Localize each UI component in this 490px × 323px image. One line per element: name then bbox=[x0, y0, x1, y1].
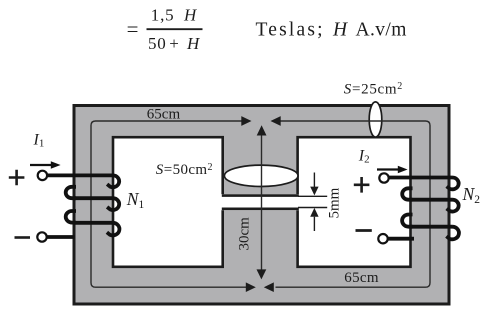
5mm dimension lower line and arrow (points up) bbox=[313, 217, 315, 231]
terminal - (N2) bbox=[378, 234, 387, 243]
svg-text:H: H bbox=[186, 34, 201, 53]
svg-text:65cm: 65cm bbox=[147, 106, 181, 122]
minus sign right bbox=[356, 229, 372, 232]
plus sign left bbox=[9, 170, 25, 186]
svg-text:50: 50 bbox=[148, 34, 167, 53]
winding N1 (left coil) bbox=[46, 175, 119, 237]
flux arrow bottom-left (points right) bbox=[246, 282, 256, 292]
hook 1 bbox=[107, 175, 119, 187]
svg-text:H: H bbox=[332, 20, 348, 41]
fraction bar bbox=[147, 28, 203, 30]
wire turn 3 bbox=[411, 225, 453, 229]
wire turn 3 bbox=[74, 221, 113, 225]
air gap bottom extension line bbox=[298, 207, 327, 209]
window left bbox=[113, 137, 223, 267]
svg-text:S=25cm2: S=25cm2 bbox=[344, 81, 403, 97]
hook 1 bbox=[447, 178, 459, 190]
flux arrow top-right (points left) bbox=[271, 116, 281, 126]
hook 2 bbox=[447, 200, 459, 212]
left loop C1 bbox=[402, 188, 412, 199]
cross-section ellipse S=50cm2 on center leg bbox=[224, 165, 298, 186]
svg-text:S=50cm2: S=50cm2 bbox=[156, 162, 213, 178]
cross-section ellipse S=25cm2 on top limb bbox=[369, 102, 382, 137]
svg-text:Teslas;: Teslas; bbox=[256, 20, 325, 41]
hook 3 bbox=[446, 227, 459, 240]
current arrow I2 bbox=[377, 168, 399, 170]
hook 3 bbox=[107, 223, 120, 236]
svg-text:+: + bbox=[169, 34, 179, 53]
left loop C2 bbox=[66, 211, 76, 223]
core outer body bbox=[74, 106, 449, 305]
left loop C1 bbox=[66, 187, 76, 198]
svg-text:5mm: 5mm bbox=[327, 187, 343, 218]
flux path center leg bbox=[261, 134, 263, 271]
hook 2 bbox=[107, 198, 119, 210]
flux path left loop bbox=[91, 121, 249, 287]
svg-text:=: = bbox=[127, 17, 139, 41]
winding N2 (right coil) bbox=[388, 178, 459, 240]
terminal + (N1) bbox=[38, 171, 47, 180]
flux path right loop bbox=[276, 121, 431, 287]
minus sign left bbox=[15, 236, 31, 239]
air gap bottom edge (lower leg top border) bbox=[222, 208, 299, 211]
svg-text:30cm: 30cm bbox=[237, 217, 253, 251]
wire turn 1 bbox=[46, 173, 113, 177]
air gap top extension line bbox=[298, 195, 327, 197]
flux arrow bottom-right (points left) bbox=[264, 282, 274, 292]
svg-text:H: H bbox=[183, 5, 198, 24]
wire turn 1 bbox=[388, 176, 453, 180]
current arrow I1 bbox=[30, 164, 52, 166]
flux arrow center bottom (points down) bbox=[257, 269, 267, 279]
terminal - (N1) bbox=[37, 232, 46, 241]
svg-text:65cm: 65cm bbox=[344, 270, 379, 286]
5mm dimension upper line and arrow (points down) bbox=[313, 173, 315, 190]
wire to minus terminal bbox=[388, 237, 414, 241]
svg-text:A.v/m: A.v/m bbox=[356, 20, 407, 41]
left loop C2 bbox=[402, 214, 412, 226]
terminal + (N2) bbox=[379, 173, 388, 182]
air gap (white band across center leg) bbox=[221, 194, 301, 210]
wire turn 2 bbox=[74, 196, 113, 200]
equation: = 1,5H / (50+H) bbox=[127, 5, 407, 53]
air gap top edge (upper leg bottom border) bbox=[222, 194, 299, 197]
wire to minus terminal bbox=[46, 235, 75, 239]
plus sign right bbox=[354, 177, 370, 193]
window right bbox=[298, 137, 411, 267]
flux arrow center top (points up) bbox=[257, 125, 267, 135]
wire turn 2 bbox=[411, 198, 453, 202]
flux arrow top-left (points right) bbox=[241, 116, 251, 126]
svg-text:1,5: 1,5 bbox=[151, 5, 175, 24]
